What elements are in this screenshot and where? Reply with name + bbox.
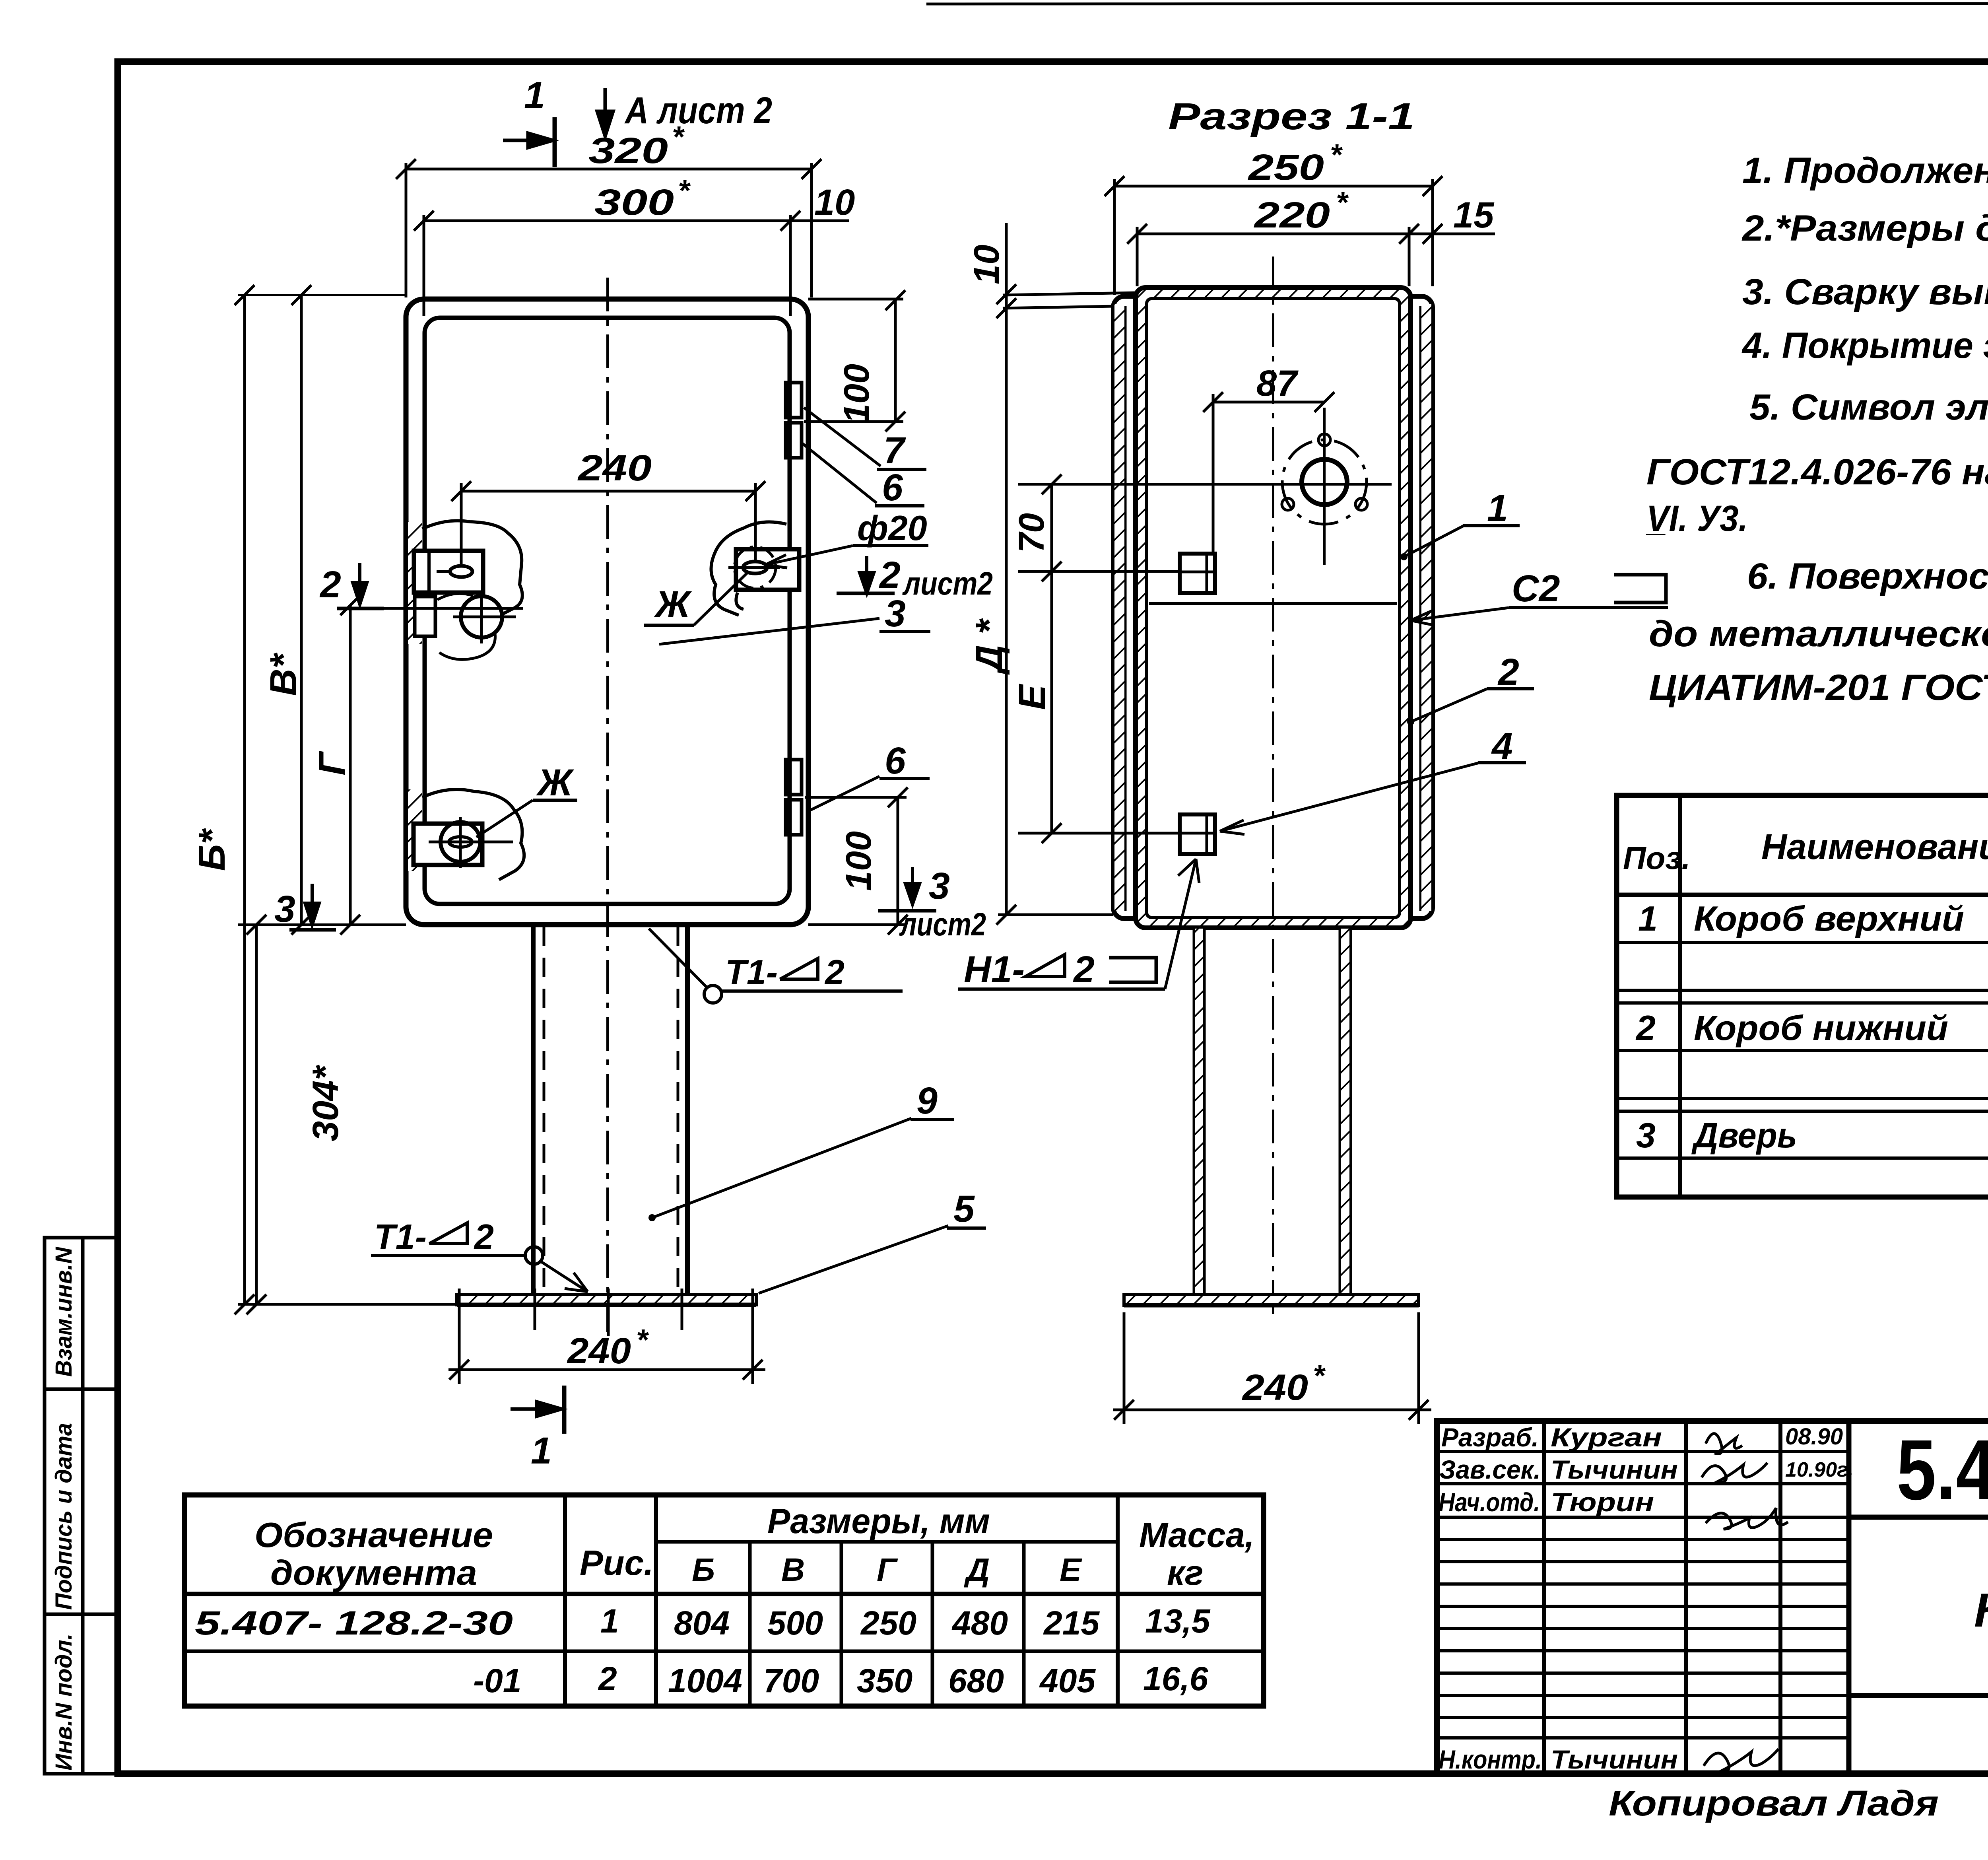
hole vertical centerline: [1323, 408, 1326, 565]
svg-text:Разраб.: Разраб.: [1441, 1423, 1539, 1452]
leader 2: [1411, 689, 1487, 722]
back box left wall hatch: [1114, 304, 1124, 911]
svg-text:Тычинин: Тычинин: [1551, 1455, 1678, 1484]
spec table rows: [1635, 897, 1988, 1199]
svg-text:2.*Размеры для справок.: 2.*Размеры для справок.: [1741, 208, 1988, 249]
svg-text:Г: Г: [877, 1552, 898, 1588]
svg-text:10.90г.: 10.90г.: [1785, 1458, 1854, 1481]
hinge upper: [786, 383, 802, 458]
svg-text:А лист 2: А лист 2: [624, 89, 772, 132]
post right wall: [685, 925, 690, 1294]
bolt hole right: [1355, 498, 1367, 510]
latch upper-right crosshair: [728, 566, 780, 569]
svg-text:Е: Е: [1011, 684, 1053, 710]
svg-text:*: *: [678, 174, 691, 207]
svg-text:Т1-: Т1-: [374, 1217, 427, 1256]
dim 10 left: [996, 223, 1136, 324]
svg-text:Д *: Д *: [968, 618, 1010, 675]
svg-text:Тычинин: Тычинин: [1551, 1745, 1678, 1774]
svg-text:лист2: лист2: [902, 566, 993, 602]
svg-text:5.407- 128.2-30: 5.407- 128.2-30: [195, 1604, 513, 1642]
svg-text:Б: Б: [692, 1552, 715, 1588]
latch upper-left slot tail: [437, 570, 450, 573]
svg-text:08.90: 08.90: [1785, 1424, 1843, 1450]
svg-text:Разрез 1-1: Разрез 1-1: [1168, 95, 1415, 138]
latch upper-left plate inner line: [427, 551, 431, 593]
leader 7: [804, 408, 881, 466]
front box outer: [1136, 288, 1411, 928]
svg-text:Подпись и дата: Подпись и дата: [51, 1423, 77, 1610]
svg-text:13,5: 13,5: [1145, 1602, 1211, 1640]
dim V* vertical: [291, 285, 311, 935]
svg-text:Дверь: Дверь: [1691, 1116, 1797, 1155]
svg-text:70: 70: [1012, 513, 1052, 553]
svg-text:5: 5: [953, 1188, 975, 1230]
svg-text:2: 2: [879, 554, 901, 596]
hole bolt circle dashed: [1282, 440, 1367, 524]
svg-text:-01: -01: [473, 1662, 521, 1699]
title block right part lines: [1849, 1515, 1988, 1520]
bolt hole left: [1282, 498, 1294, 510]
leader 1: [1404, 525, 1465, 557]
post inner dashed line right: [677, 927, 679, 1294]
section post right wall: [1340, 928, 1350, 1294]
svg-text:Е: Е: [1060, 1552, 1082, 1588]
cabinet wall hatch lower: [408, 789, 422, 871]
title block signatures (squiggles): [1702, 1434, 1788, 1772]
door panel: [425, 318, 790, 904]
dim 100 upper right: [804, 290, 905, 431]
svg-text:5. Символ электрического напря: 5. Символ электрического напряжения: [1749, 387, 1988, 428]
latch upper-left slot: [450, 566, 472, 577]
svg-text:4. Покрытие эмаль ПФ-115 серая: 4. Покрытие эмаль ПФ-115 серая. V̲I. У3: [1741, 325, 1988, 366]
svg-text:Т1-: Т1-: [725, 952, 778, 992]
svg-text:лист2: лист2: [899, 906, 986, 943]
svg-text:*: *: [1336, 186, 1349, 219]
svg-text:Обозначение: Обозначение: [254, 1515, 493, 1555]
dim 70: [1042, 474, 1062, 581]
dim 100 lower right: [805, 787, 908, 935]
left margin strip boxes: [45, 1238, 118, 1774]
svg-text:3: 3: [929, 865, 950, 907]
svg-text:Г: Г: [311, 751, 353, 775]
svg-text:Инв.N подл.: Инв.N подл.: [51, 1633, 77, 1771]
section mark 1 bottom: [511, 1386, 564, 1434]
svg-text:405: 405: [1039, 1662, 1096, 1699]
leader 9: [652, 1118, 911, 1218]
front box inner: [1147, 299, 1400, 917]
svg-text:100: 100: [839, 831, 879, 891]
svg-text:250: 250: [1248, 147, 1324, 188]
extension lines left: [238, 295, 523, 1304]
svg-text:350: 350: [857, 1662, 912, 1699]
back box right wall hatch: [1421, 304, 1431, 911]
back box right wall inner line: [1419, 306, 1422, 911]
svg-text:*: *: [672, 120, 685, 154]
svg-text:6. Поверхности Ж зачистить с д: 6. Поверхности Ж зачистить с двух сторон: [1747, 556, 1988, 597]
clip lower: [1149, 814, 1215, 854]
svg-text:кг: кг: [1167, 1553, 1204, 1592]
latch upper-right bolt slot: [743, 562, 767, 573]
svg-text:5.407-128.2-30: 5.407-128.2-30: [1897, 1422, 1988, 1518]
svg-text:Ж: Ж: [654, 583, 692, 626]
svg-text:1: 1: [1638, 899, 1658, 938]
svg-text:до металлического блеска и сма: до металлического блеска и смазать смазк…: [1649, 614, 1988, 654]
svg-text:1. Продолжение спецификации см: 1. Продолжение спецификации см. лист 2.: [1742, 150, 1988, 191]
svg-text:10: 10: [814, 182, 855, 223]
latch lower-left bolt slot: [449, 837, 472, 847]
dim 240: [451, 481, 765, 564]
svg-text:2: 2: [1073, 948, 1095, 991]
svg-text:Тюрин: Тюрин: [1551, 1487, 1654, 1517]
svg-text:В*: В*: [262, 652, 305, 696]
cabinet outer body: [406, 299, 808, 925]
dim 300*: [414, 211, 800, 316]
cabinet centerline: [606, 278, 609, 1332]
latch lower-left bolt: [441, 822, 480, 862]
bolt hole top: [1318, 434, 1330, 446]
svg-text:Карпус: Карпус: [1974, 1584, 1988, 1637]
dim E: [1018, 571, 1153, 843]
post inner dashed line left: [543, 927, 546, 1294]
svg-text:Короб нижний: Короб нижний: [1694, 1008, 1948, 1048]
svg-text:*: *: [636, 1323, 649, 1357]
dim 220*: [1127, 224, 1495, 286]
dimensions table grid: [184, 1495, 1264, 1706]
svg-text:7: 7: [883, 430, 906, 472]
title block left table verticals: [1542, 1421, 1546, 1774]
svg-text:Н.контр.: Н.контр.: [1439, 1745, 1542, 1774]
svg-text:Размеры, мм: Размеры, мм: [767, 1501, 990, 1541]
dim 240* bottom section: [1113, 1312, 1431, 1424]
svg-text:16,6: 16,6: [1143, 1660, 1209, 1697]
latch lower-left plate: [414, 824, 482, 865]
hasp blob: [437, 593, 495, 659]
svg-text:2: 2: [474, 1217, 494, 1256]
dim 10 top: [790, 220, 849, 222]
dim B* vertical: [235, 285, 254, 1314]
svg-text:3: 3: [1636, 1116, 1656, 1155]
svg-text:10: 10: [967, 245, 1007, 284]
leader 6 lower: [806, 776, 879, 812]
interior divider line: [1149, 602, 1397, 605]
svg-text:6: 6: [885, 740, 906, 782]
svg-text:240: 240: [577, 448, 652, 488]
svg-text:Короб верхний: Короб верхний: [1694, 899, 1964, 938]
leader 3 door: [659, 618, 879, 644]
leader 5: [759, 1226, 948, 1293]
svg-text:240: 240: [567, 1331, 631, 1371]
svg-text:2: 2: [1635, 1008, 1656, 1048]
latch upper-left plate: [414, 551, 483, 593]
section mark 1 top: [503, 117, 555, 167]
cabinet wall hatch upper: [408, 521, 422, 644]
svg-text:3. Сварку выполнить по ГОСТ526: 3. Сварку выполнить по ГОСТ5264-80.: [1742, 272, 1988, 312]
svg-text:6: 6: [882, 466, 903, 509]
svg-text:Д: Д: [964, 1552, 990, 1588]
svg-text:1004: 1004: [668, 1662, 742, 1699]
svg-text:300: 300: [594, 182, 674, 223]
front box ring with hatch: [1136, 288, 1411, 928]
latch upper-left blob: [422, 521, 522, 615]
latch upper-right blob: [711, 522, 786, 615]
leader f20 to bolt: [765, 546, 853, 568]
latch upper-right hole dashed: [734, 547, 776, 588]
svg-text:С2: С2: [1512, 568, 1560, 610]
svg-text:680: 680: [948, 1662, 1004, 1699]
dimensions table headers: [254, 1501, 1254, 1592]
svg-text:ф20: ф20: [857, 508, 927, 548]
svg-text:1: 1: [531, 1430, 552, 1472]
hasp plate on wall: [415, 597, 435, 636]
hole horizontal centerline: [1018, 483, 1392, 486]
svg-text:Рис.: Рис.: [580, 1543, 654, 1582]
svg-text:240: 240: [1242, 1367, 1308, 1408]
svg-text:2: 2: [1497, 651, 1519, 693]
leader 4: [1220, 763, 1479, 834]
svg-text:Н1-: Н1-: [964, 948, 1025, 991]
svg-text:документа: документа: [270, 1553, 477, 1592]
svg-text:В: В: [781, 1552, 805, 1588]
hasp ring crosshair: [453, 616, 516, 618]
svg-text:V̲I. У3.: V̲I. У3.: [1646, 498, 1748, 539]
section centerline: [1272, 257, 1274, 1320]
svg-text:1: 1: [600, 1602, 619, 1640]
view A down arrow: [597, 88, 613, 136]
svg-text:4: 4: [1491, 725, 1513, 767]
spec table headers: [1623, 800, 1988, 884]
section base plate: [1124, 1294, 1419, 1305]
svg-text:Масса,: Масса,: [1139, 1515, 1254, 1555]
dim 304* vertical: [247, 915, 266, 1314]
svg-text:Зав.сек.: Зав.сек.: [1439, 1455, 1541, 1484]
dim 320*: [396, 159, 821, 297]
svg-text:87: 87: [1256, 363, 1299, 404]
svg-text:Б*: Б*: [191, 828, 233, 871]
svg-text:9: 9: [916, 1080, 938, 1122]
svg-text:Поз.: Поз.: [1623, 840, 1690, 876]
dim 87: [1203, 392, 1334, 554]
notes text block: [1646, 150, 1988, 708]
dimensions table data: [195, 1602, 1211, 1699]
svg-text:*: *: [1313, 1359, 1326, 1392]
svg-text:*: *: [1330, 138, 1343, 171]
leader 6 upper: [802, 443, 877, 503]
svg-text:100: 100: [837, 364, 877, 424]
svg-text:Взам.инв.N: Взам.инв.N: [51, 1247, 77, 1377]
title block left table rows: [1437, 1450, 1849, 1453]
post left wall: [531, 925, 536, 1294]
svg-text:Копировал Ладя: Копировал Ладя: [1609, 1784, 1939, 1823]
svg-text:Ж: Ж: [536, 762, 575, 804]
svg-text:2: 2: [319, 564, 341, 606]
clip upper: [1149, 554, 1215, 593]
hole inner circle: [1302, 459, 1347, 505]
svg-text:804: 804: [674, 1604, 730, 1642]
svg-text:1: 1: [524, 74, 545, 117]
dim 250*: [1105, 176, 1442, 295]
svg-text:3: 3: [274, 888, 295, 930]
latch lower-left crosshair: [429, 841, 513, 844]
svg-text:320: 320: [588, 130, 668, 171]
dim G vertical: [340, 595, 360, 935]
base plate: [457, 1289, 756, 1336]
back box outer: [1113, 296, 1433, 919]
latch lower-left blob: [415, 789, 524, 880]
dim 240* bottom front: [448, 1312, 765, 1384]
svg-text:500: 500: [767, 1604, 823, 1642]
svg-text:250: 250: [860, 1604, 916, 1642]
section post left wall: [1194, 928, 1204, 1294]
svg-text:Нач.отд.: Нач.отд.: [1439, 1487, 1540, 1517]
title block left table texts: [1439, 1423, 1854, 1774]
svg-text:15: 15: [1453, 195, 1495, 235]
dim D* vertical: [996, 324, 1113, 925]
svg-text:220: 220: [1254, 195, 1330, 235]
svg-text:ЦИАТИМ-201 ГОСТ6267-74.: ЦИАТИМ-201 ГОСТ6267-74.: [1649, 667, 1988, 708]
page top edge line: [926, 3, 1988, 4]
hinge lower: [786, 760, 802, 835]
svg-text:2: 2: [824, 952, 845, 992]
svg-text:Курган: Курган: [1551, 1423, 1662, 1452]
svg-text:700: 700: [763, 1662, 819, 1699]
hasp ring: [461, 596, 502, 637]
latch upper-right plate: [736, 549, 799, 590]
svg-text:3: 3: [885, 593, 906, 635]
svg-text:304*: 304*: [305, 1065, 346, 1141]
specification table grid: [1617, 795, 1988, 1197]
back box left wall inner line: [1124, 306, 1127, 911]
svg-text:2: 2: [598, 1660, 617, 1697]
svg-text:1: 1: [1487, 487, 1508, 529]
svg-text:Наименование: Наименование: [1761, 827, 1988, 867]
svg-text:480: 480: [951, 1604, 1008, 1642]
title block outer: [1437, 1421, 1988, 1774]
svg-text:ГОСТ12.4.026-76 нанести эмалью: ГОСТ12.4.026-76 нанести эмалью ПФ-115 кр…: [1646, 452, 1988, 492]
svg-text:215: 215: [1043, 1604, 1100, 1642]
